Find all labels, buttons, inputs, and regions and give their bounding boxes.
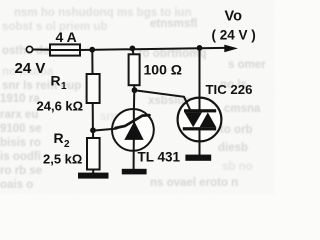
- svg-text:( 24 V ): ( 24 V ): [212, 28, 256, 43]
- op-amp U1 TL431: [112, 109, 154, 151]
- wire node B down to R2: [92, 130, 94, 138]
- svg-text:1: 1: [61, 81, 67, 92]
- output arrow: [224, 45, 238, 53]
- svg-text:24 V: 24 V: [15, 60, 46, 77]
- fuse F 4A: [50, 44, 80, 55]
- svg-text:4 A: 4 A: [56, 29, 77, 45]
- node B (R1/R2/ref): [90, 127, 96, 133]
- svg-text:TL 431: TL 431: [138, 150, 181, 165]
- wire top rail: [80, 48, 225, 50]
- wire node D to TL431: [133, 90, 135, 111]
- ground below triac: [185, 155, 211, 161]
- paper grain (decorative): [0, 0, 275, 194]
- wire R1 to node B: [92, 103, 94, 130]
- wire TL431 anode to ground: [133, 151, 135, 169]
- node C (rail / 100 ohm): [130, 46, 136, 52]
- node D (100R / TL431 cathode / gate): [132, 87, 138, 93]
- transistor Q1 TIC 226 (triac): [178, 98, 222, 142]
- wire R2 to ground: [92, 170, 94, 174]
- resistor R2: [87, 138, 100, 170]
- wire gate from node D to triac: [135, 90, 191, 109]
- svg-text:Vo: Vo: [225, 8, 243, 24]
- faint page bleed-through texture (decorative): [0, 7, 266, 191]
- wire triac to ground: [199, 141, 201, 155]
- wire node C to 100 ohm: [133, 48, 134, 54]
- svg-text:100 Ω: 100 Ω: [144, 61, 182, 77]
- resistor 100 ohm: [129, 54, 140, 85]
- resistor R1: [87, 74, 100, 103]
- wire node B to TL431 ref: [93, 129, 117, 131]
- input terminal: [26, 46, 32, 52]
- ground below TL431: [122, 169, 147, 175]
- node E (rail / triac): [197, 45, 203, 51]
- svg-text:24,6 kΩ: 24,6 kΩ: [37, 98, 84, 113]
- node A (fuse / R1): [89, 47, 95, 53]
- wire 100 ohm to node D: [133, 85, 135, 90]
- label R1: [51, 72, 68, 92]
- ground below R2: [78, 173, 109, 179]
- svg-text:2: 2: [64, 139, 70, 150]
- svg-text:R: R: [51, 72, 61, 88]
- svg-text:2,5 kΩ: 2,5 kΩ: [43, 152, 82, 167]
- wire rail to triac: [199, 48, 201, 98]
- wire node A down to R1: [91, 50, 93, 74]
- label R2: [54, 130, 71, 150]
- svg-text:R: R: [54, 130, 64, 146]
- svg-text:TIC 226: TIC 226: [206, 82, 253, 97]
- wire terminal to fuse: [33, 49, 50, 51]
